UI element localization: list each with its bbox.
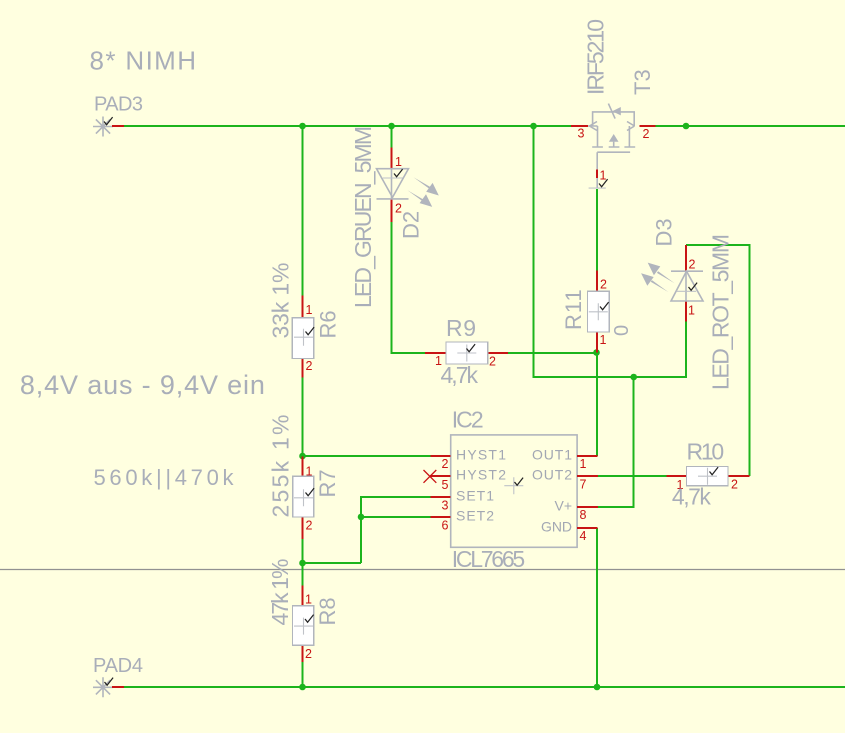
LED D3 bbox=[641, 218, 733, 390]
R8 pin 2 stub bbox=[302, 645, 304, 662]
R7 pin 2 stub bbox=[302, 517, 304, 539]
PAD4 star symbol bbox=[93, 677, 113, 697]
svg-text:255k 1%: 255k 1% bbox=[268, 415, 294, 518]
svg-text:R11: R11 bbox=[561, 288, 586, 330]
svg-text:4: 4 bbox=[580, 529, 587, 543]
wire top rail PAD3 net right segment bbox=[655, 125, 845, 127]
junction top rail T3 right bbox=[683, 123, 690, 130]
svg-text:2: 2 bbox=[442, 457, 449, 471]
svg-text:1: 1 bbox=[688, 304, 695, 318]
R9 origin cross bbox=[457, 345, 476, 362]
junction top rail D2 bbox=[388, 123, 395, 130]
wire R6 bottom to HYST1 node bbox=[302, 378, 304, 456]
svg-text:R9: R9 bbox=[446, 315, 476, 341]
svg-text:ICL7665: ICL7665 bbox=[452, 546, 526, 572]
svg-text:33k 1%: 33k 1% bbox=[268, 263, 294, 339]
PAD3 pin stub bbox=[112, 125, 124, 127]
IC2 pin 1 OUT1 bbox=[577, 455, 597, 457]
resistor R7 bbox=[268, 415, 341, 539]
svg-text:OUT1: OUT1 bbox=[532, 447, 572, 463]
svg-text:1: 1 bbox=[600, 169, 607, 183]
IC2 pin 5 HYST2 unconnected bbox=[430, 475, 451, 477]
R10 origin cross bbox=[698, 468, 717, 485]
pad PAD3 bbox=[93, 94, 143, 137]
wire GND drop bbox=[596, 528, 598, 687]
IC2 pin 7 OUT2 bbox=[577, 475, 598, 477]
D2 cathode bar bbox=[377, 198, 409, 200]
D3 origin cross bbox=[676, 290, 696, 292]
wire SET vertical riser bbox=[361, 497, 430, 563]
junction Vplus branch node bbox=[630, 374, 637, 381]
svg-text:R7: R7 bbox=[315, 469, 340, 497]
svg-text:PAD4: PAD4 bbox=[93, 655, 143, 677]
T3 substrate arrow bbox=[609, 134, 619, 142]
svg-text:4,7k: 4,7k bbox=[441, 362, 479, 388]
svg-text:OUT2: OUT2 bbox=[532, 467, 572, 483]
svg-text:2: 2 bbox=[306, 359, 313, 373]
resistor R6 bbox=[268, 263, 341, 378]
R6 pin 2 stub bbox=[302, 359, 304, 378]
wire R10 pin2 riser to D3 cathode bbox=[686, 245, 750, 476]
resistor R11 bbox=[561, 271, 633, 353]
pad PAD4 bbox=[93, 655, 143, 697]
wire bottom rail PAD4 net bbox=[124, 686, 845, 688]
D3 pin 1 anode stub bbox=[685, 301, 687, 322]
svg-text:8* NIMH: 8* NIMH bbox=[90, 46, 197, 76]
svg-text:D3: D3 bbox=[652, 218, 677, 246]
svg-text:2: 2 bbox=[306, 519, 313, 533]
IC2 origin cross bbox=[504, 477, 523, 494]
svg-text:47k 1%: 47k 1% bbox=[267, 559, 293, 626]
R11 checkmark bbox=[600, 302, 609, 310]
wire HYST1 horizontal bbox=[303, 455, 431, 457]
IC2 checkmark bbox=[515, 478, 524, 486]
svg-text:2: 2 bbox=[489, 355, 496, 369]
svg-text:LED_GRUEN_5MM: LED_GRUEN_5MM bbox=[350, 126, 376, 308]
D3 checkmark bbox=[689, 283, 698, 291]
junction top rail Vplus drop bbox=[530, 123, 537, 130]
D2 axis line bbox=[391, 169, 393, 199]
svg-text:1: 1 bbox=[306, 303, 313, 317]
svg-text:SET1: SET1 bbox=[456, 488, 494, 504]
svg-text:IC2: IC2 bbox=[452, 407, 484, 433]
junction top rail R6 bbox=[299, 123, 306, 130]
junction bottom rail R8 bbox=[299, 684, 306, 691]
R10 checkmark bbox=[710, 467, 719, 475]
T3 pin 2 stub bbox=[640, 125, 656, 127]
D2 triangle bbox=[377, 169, 409, 198]
IC2 pin 5 no-connect X marker bbox=[424, 470, 437, 483]
R6 pin 1 stub bbox=[302, 296, 304, 318]
R6 checkmark bbox=[306, 327, 315, 335]
svg-text:1: 1 bbox=[600, 333, 607, 347]
D3 pin 2 cathode stub bbox=[685, 245, 687, 271]
IC2 pin 4 GND bbox=[577, 527, 597, 529]
wire R11 top to T3 gate bbox=[596, 189, 598, 271]
junction HYST1 node bbox=[299, 453, 306, 460]
svg-text:D2: D2 bbox=[399, 211, 424, 239]
R11 body bbox=[587, 291, 609, 332]
IC2 pin 2 HYST1 bbox=[430, 455, 450, 457]
IC U IC2 ICL7665 bbox=[424, 407, 599, 573]
resistor R9 bbox=[425, 315, 508, 388]
svg-text:3: 3 bbox=[442, 499, 449, 513]
svg-text:1: 1 bbox=[395, 155, 402, 169]
T3 source arrow pin3 bbox=[590, 122, 635, 131]
svg-text:SET2: SET2 bbox=[456, 508, 494, 524]
D2 pin 1 anode stub bbox=[391, 148, 393, 169]
R11 pin 1 stub bbox=[596, 332, 598, 353]
R9 body bbox=[446, 342, 488, 364]
wire D2 top column bbox=[391, 126, 393, 148]
PAD4 pin stub bbox=[112, 686, 124, 688]
svg-text:6: 6 bbox=[442, 519, 449, 533]
wire R7 bottom bbox=[302, 539, 304, 563]
R11 origin cross bbox=[589, 303, 608, 320]
R8 body bbox=[293, 606, 314, 645]
svg-text:1: 1 bbox=[305, 593, 312, 607]
resistor R8 bbox=[267, 559, 340, 663]
R11 pin 2 stub bbox=[596, 271, 598, 292]
D2 light arrows bbox=[408, 177, 439, 207]
svg-text:V+: V+ bbox=[554, 497, 572, 513]
R7 body bbox=[293, 476, 314, 517]
R6 origin cross bbox=[294, 329, 313, 346]
svg-text:2: 2 bbox=[731, 478, 738, 492]
svg-text:HYST2: HYST2 bbox=[456, 467, 506, 483]
R7 origin cross bbox=[294, 489, 313, 506]
svg-text:GND: GND bbox=[541, 519, 572, 535]
svg-text:0: 0 bbox=[611, 325, 633, 336]
svg-text:LED_ROT_5MM: LED_ROT_5MM bbox=[708, 234, 734, 390]
svg-text:IRF5210: IRF5210 bbox=[583, 19, 609, 95]
D2 origin cross bbox=[383, 177, 403, 179]
wire OUT2 to R10 bbox=[598, 475, 667, 477]
svg-text:1: 1 bbox=[580, 457, 587, 471]
PAD3 checkmark bbox=[104, 117, 113, 125]
IC2 pin 3 SET1 bbox=[430, 496, 450, 498]
T3 pin 3 stub bbox=[571, 125, 588, 127]
svg-text:8,4V aus - 9,4V ein: 8,4V aus - 9,4V ein bbox=[20, 370, 265, 400]
svg-text:2: 2 bbox=[689, 258, 696, 272]
svg-text:1: 1 bbox=[306, 465, 313, 479]
R9 pin 2 stub bbox=[488, 352, 508, 354]
svg-text:R8: R8 bbox=[315, 597, 340, 625]
svg-text:7: 7 bbox=[580, 478, 587, 492]
svg-text:560k||470k: 560k||470k bbox=[94, 465, 235, 490]
svg-text:T3: T3 bbox=[630, 69, 655, 95]
R10 body bbox=[687, 467, 729, 486]
svg-text:5: 5 bbox=[442, 478, 449, 492]
frame line bbox=[0, 569, 845, 571]
junction R11 R9 OUT1 node bbox=[593, 349, 600, 356]
wire top rail PAD3 net left segment bbox=[124, 125, 572, 127]
R10 pin 1 stub bbox=[667, 475, 687, 477]
R7 pin 1 stub bbox=[302, 457, 304, 477]
wire SET2 branch bbox=[361, 516, 430, 518]
junction R7 R8 node bbox=[299, 560, 306, 567]
R10 pin 2 stub bbox=[728, 475, 749, 477]
T3 checkmark bbox=[599, 179, 608, 187]
wire OUT1 riser bbox=[596, 353, 598, 457]
svg-text:PAD3: PAD3 bbox=[94, 94, 143, 116]
D3 cathode bar bbox=[671, 270, 703, 272]
D3 triangle bbox=[671, 271, 703, 301]
T3 body diode bbox=[608, 104, 615, 119]
svg-text:2: 2 bbox=[600, 278, 607, 292]
svg-text:R10: R10 bbox=[687, 439, 725, 465]
R8 checkmark bbox=[305, 615, 314, 623]
wire V+ rail drop from top bbox=[534, 126, 687, 377]
wire D2 cathode to R9 bbox=[392, 222, 426, 353]
R9 checkmark bbox=[467, 344, 476, 352]
junction bottom rail GND bbox=[594, 684, 601, 691]
D3 axis line bbox=[685, 271, 687, 301]
R6 body bbox=[292, 318, 314, 359]
wire R8 top bbox=[302, 563, 304, 586]
IC2 body bbox=[451, 435, 577, 547]
svg-text:4,7k: 4,7k bbox=[672, 484, 712, 510]
svg-text:2: 2 bbox=[643, 127, 650, 141]
IC2 pin 8 V+ bbox=[577, 506, 598, 508]
svg-text:HYST1: HYST1 bbox=[456, 447, 506, 463]
R9 pin 1 stub bbox=[425, 352, 446, 354]
D2 checkmark bbox=[394, 169, 403, 177]
R8 pin 1 stub bbox=[302, 586, 304, 606]
svg-text:8: 8 bbox=[580, 508, 587, 522]
resistor R10 bbox=[667, 439, 750, 510]
svg-text:R6: R6 bbox=[316, 310, 341, 338]
wire R6 top column bbox=[302, 126, 304, 296]
svg-text:2: 2 bbox=[305, 647, 312, 661]
wire R8 bottom bbox=[302, 662, 304, 687]
IC2 pin 6 SET2 bbox=[430, 516, 450, 518]
svg-text:3: 3 bbox=[578, 127, 585, 141]
PAD3 star symbol bbox=[93, 117, 113, 137]
T3 body bbox=[588, 112, 635, 188]
LED D2 bbox=[350, 126, 439, 308]
junction SET2 node bbox=[358, 514, 365, 521]
D2 pin 2 cathode stub bbox=[391, 199, 393, 222]
transistor T3 IRF5210 bbox=[571, 19, 655, 188]
PAD4 checkmark bbox=[105, 678, 114, 686]
R7 checkmark bbox=[306, 488, 315, 496]
T3 pin 1 gate stub bbox=[596, 170, 598, 179]
wire V+ branch to IC pin 8 bbox=[598, 377, 634, 507]
T3 origin cross bbox=[589, 187, 606, 189]
wire R9 pin2 to R11 node bbox=[508, 352, 597, 354]
R8 origin cross bbox=[294, 618, 313, 635]
D3 light arrows bbox=[641, 263, 675, 293]
wire SET horizontal lower bbox=[303, 562, 362, 564]
